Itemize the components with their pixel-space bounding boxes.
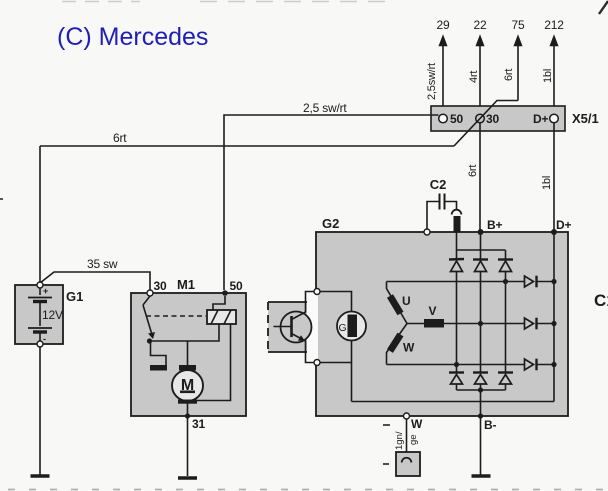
- diode D3 top col3: [498, 258, 513, 260]
- starter M1 body: [131, 293, 246, 416]
- scan artifact tick near W label: [383, 424, 390, 426]
- bridge bottom sub-rail: [457, 389, 506, 391]
- diode D4 bottom col1: [449, 371, 464, 373]
- diode D5 bottom col2: [473, 371, 488, 373]
- wire down to motor brush: [187, 341, 189, 365]
- svg-text:B-: B-: [484, 418, 496, 432]
- scan artifact left edge tick: [0, 198, 3, 200]
- scan artifact top-right corner mark: [599, 1, 608, 14]
- wire regulator top to rotor top: [320, 292, 352, 313]
- wire 6rt diagonal through connector: [454, 101, 518, 147]
- terminal circle M1-30: [147, 290, 153, 296]
- svg-text:6rt: 6rt: [113, 131, 127, 145]
- svg-text:30: 30: [154, 279, 167, 293]
- wire 4rt to 22: [477, 37, 484, 115]
- exciter diode D9: [525, 359, 534, 370]
- phase rail U: [387, 281, 525, 283]
- transistor base lead: [274, 326, 292, 328]
- diode D1 top col1: [449, 258, 464, 261]
- wire 50 to coil: [213, 296, 225, 310]
- svg-text:C1: C1: [594, 291, 608, 310]
- transistor base bar: [290, 316, 293, 337]
- wire suppressor into bridge: [456, 232, 458, 250]
- ground below B-: [472, 474, 491, 477]
- left thick contact bar: [150, 365, 167, 371]
- scan artifact bottom edge dashes: [8, 489, 604, 491]
- svg-text:30: 30: [486, 112, 499, 126]
- motor underline bar: [180, 391, 195, 394]
- svg-text:50: 50: [230, 279, 243, 293]
- svg-text:6rt: 6rt: [503, 69, 515, 81]
- wire 1bl to 212: [551, 37, 558, 115]
- terminal circle W on G2: [404, 413, 410, 419]
- wire 1bl from X5/1-D+ down to G2 D+: [553, 123, 555, 230]
- ground below G1: [31, 474, 50, 477]
- svg-text:35 sw: 35 sw: [87, 257, 118, 271]
- wire battery top vertical: [39, 146, 41, 283]
- motor top brush bar: [179, 365, 196, 371]
- bridge column 3: [505, 250, 507, 259]
- terminal 30 of X5/1: [476, 114, 485, 123]
- junction dot rail V D+: [551, 321, 556, 326]
- diode D2 top col2: [473, 258, 488, 260]
- svg-text:1bl: 1bl: [542, 69, 554, 83]
- wire 35sw from battery to M1-30: [40, 272, 150, 290]
- svg-text:U: U: [402, 294, 410, 308]
- junction dot rail U col3: [503, 279, 508, 284]
- motor M circle: [172, 370, 203, 401]
- svg-text:22: 22: [474, 18, 487, 32]
- wire 2,5sw/rt horizontal from X5/1-50 to M1-50: [224, 115, 439, 290]
- exciter diode D7: [525, 276, 534, 287]
- svg-text:ge: ge: [408, 434, 419, 445]
- svg-text:X5/1: X5/1: [572, 111, 599, 126]
- switch blade arrowhead: [148, 332, 155, 339]
- svg-text:V: V: [429, 304, 437, 318]
- svg-text:75: 75: [512, 18, 525, 32]
- transistor emitter lead: [292, 334, 315, 363]
- junction dot rail W col1: [454, 362, 459, 367]
- bridge column 1: [456, 250, 458, 259]
- alternator G2 body: [316, 232, 568, 416]
- diode D6 bottom col3: [498, 371, 513, 373]
- wire B+ into bridge: [480, 232, 482, 250]
- svg-text:G1: G1: [66, 289, 83, 304]
- svg-text:+: +: [43, 286, 48, 296]
- junction dot B- edge: [478, 413, 483, 418]
- svg-text:G2: G2: [322, 216, 339, 231]
- wire coil to ground side: [197, 324, 231, 401]
- capacitor C2 left lead: [427, 202, 440, 230]
- relay coil K: [207, 310, 236, 324]
- transistor emitter arrowhead: [298, 335, 305, 341]
- wire coil to blade node: [150, 324, 220, 341]
- terminal D+ of X5/1: [550, 114, 559, 123]
- rotor field winding black bar: [348, 315, 358, 338]
- svg-text:-: -: [43, 334, 46, 344]
- svg-text:50: 50: [450, 112, 463, 126]
- wire blade node to left brush: [151, 341, 167, 365]
- svg-text:C2: C2: [430, 177, 447, 192]
- wire 2,5sw/rt to 29: [440, 37, 447, 115]
- stator winding W: [387, 324, 408, 365]
- rotor G circle: [337, 312, 366, 341]
- scan artifact top dashes: [62, 1, 392, 3]
- junction dot rail U D+: [551, 279, 556, 284]
- svg-text:W: W: [403, 341, 415, 355]
- svg-text:31: 31: [192, 417, 205, 431]
- stator winding U: [387, 282, 408, 324]
- battery G1 body: [15, 285, 63, 344]
- terminal circle C2 on G2: [424, 229, 430, 235]
- coil hatch lines: [211, 310, 218, 324]
- junction dot rail V col2: [478, 321, 483, 326]
- svg-text:1gn/: 1gn/: [394, 431, 405, 450]
- scan artifact tick near plug box: [383, 463, 389, 465]
- svg-text:2,5sw/rt: 2,5sw/rt: [426, 63, 438, 100]
- svg-text:(C) Mercedes: (C) Mercedes: [57, 23, 208, 51]
- switch blade: [143, 305, 152, 333]
- wire B-: [480, 390, 482, 476]
- svg-text:4rt: 4rt: [468, 71, 480, 83]
- wire D+ inner vertical: [553, 232, 555, 402]
- terminal circle G1 top: [37, 282, 43, 288]
- terminal 50 of X5/1: [439, 114, 448, 123]
- terminal circle G1 bottom: [37, 341, 43, 347]
- svg-text:2,5 sw/rt: 2,5 sw/rt: [303, 101, 347, 115]
- wire motor to 31: [187, 404, 189, 477]
- junction dot D+: [551, 229, 557, 235]
- terminal circle regulator top: [314, 289, 320, 295]
- regulator box: [268, 302, 307, 352]
- bridge column 2: [480, 250, 482, 259]
- dashed actuation link: [146, 315, 206, 317]
- svg-text:29: 29: [437, 18, 450, 32]
- plug arc symbol: [452, 210, 462, 215]
- svg-text:12V: 12V: [42, 308, 63, 322]
- battery cell 2 plates: [28, 327, 52, 329]
- suppressor terminal black block: [454, 216, 461, 232]
- svg-text:212: 212: [544, 18, 564, 32]
- wire W to plug: [406, 419, 408, 457]
- battery G1 internal wire: [39, 288, 41, 341]
- terminal circle regulator bottom: [314, 360, 320, 366]
- bridge top rail: [457, 249, 506, 251]
- junction dot M1-50: [222, 290, 228, 296]
- plug arc symbol W: [402, 458, 412, 463]
- plug housing box: [396, 452, 420, 476]
- stator winding V: [407, 323, 424, 325]
- connector X5/1 body: [431, 106, 565, 131]
- wire 6rt from X5/1-30 down to G2 B+: [479, 123, 481, 230]
- battery cell 1 plates: [28, 297, 52, 299]
- wire 6rt to 75: [515, 37, 522, 101]
- svg-text:6rt: 6rt: [467, 165, 479, 177]
- bottom D- rail: [352, 401, 555, 403]
- svg-text:B+: B+: [487, 218, 502, 232]
- junction dot blade output: [147, 338, 152, 343]
- phase rail V: [444, 323, 525, 325]
- junction dot rail W D+: [551, 362, 556, 367]
- svg-text:D+: D+: [533, 112, 548, 126]
- svg-text:M1: M1: [177, 277, 195, 292]
- capacitor C2 right lead: [445, 202, 457, 210]
- svg-text:W: W: [411, 417, 423, 431]
- svg-text:1bl: 1bl: [541, 176, 553, 190]
- junction dot B+: [478, 229, 484, 235]
- switch fixed contact: [143, 296, 150, 305]
- transistor Q1 circle: [281, 312, 312, 343]
- wire regulator bottom to rotor bottom and D- rail: [320, 341, 352, 402]
- junction dot 31: [185, 413, 190, 418]
- wire 6rt long horizontal from battery to connector diagonal: [40, 145, 454, 147]
- notch white cutout on G2 left edge: [307, 294, 319, 361]
- ground below M1: [178, 476, 197, 479]
- svg-text:D+: D+: [556, 218, 571, 232]
- svg-text:G: G: [339, 322, 347, 334]
- phase rail W: [387, 364, 525, 366]
- exciter diode D8: [525, 318, 534, 329]
- wire G1 to ground: [39, 347, 41, 476]
- motor bottom brush bar: [178, 400, 197, 404]
- junction dot sub-rail B-: [478, 387, 483, 392]
- capacitor C2 plates: [439, 194, 441, 210]
- transistor collector lead: [292, 292, 315, 320]
